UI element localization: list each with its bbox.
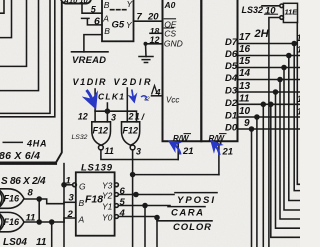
- data bus row D1: [238, 116, 301, 118]
- junction on F16b output: [50, 220, 54, 224]
- text 4HA with dash: [3, 139, 47, 149]
- wire G5 Y output to U-F17 OE pin 20: [134, 20, 163, 22]
- wire branch down from COLOR: [156, 221, 158, 247]
- wire R/W pin 21 stub of U-F19: [218, 145, 220, 175]
- wire bus corner 4: [0, 0, 39, 91]
- RAM chip U-F17 (left 6116) outline: [163, 0, 202, 141]
- overline of OE: [164, 18, 175, 20]
- wire D3 drop and corner: [276, 92, 301, 228]
- data bus row D3: [238, 91, 301, 93]
- wire D7 drop and corner: [294, 44, 300, 191]
- scan paper texture: [0, 0, 1, 1]
- data bus row D7: [238, 43, 298, 45]
- wire Y1 pin5 to CARA: [118, 206, 205, 207]
- junction D3: [274, 90, 278, 94]
- bubble Y3: [115, 183, 119, 187]
- wire branch to F12a pin 13 and F12b pin 1: [95, 103, 136, 122]
- junction pin1 node: [62, 183, 66, 187]
- annotation blue arrow 2 (V2DIR): [132, 90, 134, 99]
- wire CS pin 18 stub: [150, 32, 163, 34]
- decoder U-F18 LS139 outline: [76, 172, 115, 235]
- junction D1: [255, 115, 259, 119]
- junction at A-wire: [37, 220, 41, 224]
- junction YPOSI wire: [134, 193, 138, 197]
- wire D6 drop and corner: [289, 56, 300, 201]
- overline of CS: [164, 27, 173, 29]
- bubble on R/W pin of U-F19: [217, 141, 221, 145]
- wire into LS139 A pin 2: [64, 218, 76, 222]
- wire D0 drop to bottom: [251, 129, 253, 247]
- wire into LS139 B pin 3: [64, 201, 76, 203]
- label R/W of U-F17: [173, 134, 191, 143]
- junction D6: [287, 54, 291, 58]
- annotation blue arrow 1 (V1DIR): [87, 90, 94, 102]
- wire branch down from CARA: [144, 206, 146, 247]
- bubble Y0: [115, 215, 119, 219]
- wire CLK1 into F12a pin 12: [94, 89, 96, 122]
- junction D4: [278, 78, 282, 82]
- wire into gate 11E lower input, drops to bottom: [269, 18, 280, 247]
- mux U-G5 body: [102, 0, 134, 41]
- wire D2 drop to bottom: [262, 104, 264, 247]
- wire D2 second drop and corner: [271, 104, 300, 237]
- underline of 10: [265, 13, 278, 15]
- wire F12b output 3 to R/W of U-F19: [132, 150, 134, 247]
- annotation blue arrow 3 (R/W F17): [174, 144, 181, 155]
- data bus row D2: [238, 103, 301, 105]
- wire Vcc pin 24 stub: [152, 95, 163, 97]
- NOR gate F12a body (vertical, LS32): [92, 122, 111, 145]
- wire bus corner 6: [0, 0, 55, 117]
- junction GND wire: [144, 42, 148, 46]
- junction F12b output: [131, 173, 135, 177]
- wire V2DIR into F12b pin 2: [126, 88, 128, 122]
- wire pin5 to G5 A input: [82, 4, 102, 13]
- bubble Y1: [115, 204, 119, 208]
- label R/W of U-F19: [209, 134, 227, 143]
- wire D5 drop and corner: [284, 68, 300, 211]
- wire branch down to bottom: [51, 222, 53, 247]
- junction D0: [250, 127, 254, 131]
- NOR gate F12b body (vertical, LS32): [122, 122, 140, 145]
- wire bus corner 2: [0, 0, 12, 38]
- mux G5 section divider (dashed): [111, 9, 128, 11]
- junction CARA wire: [143, 204, 147, 208]
- wire Y2 pin6 to YPOSI: [118, 194, 174, 196]
- F12a output bubble: [99, 145, 104, 150]
- wire VREAD to G5 lower input: [84, 35, 102, 52]
- net YPOSI overline: [175, 192, 217, 194]
- junction on F16a output: [37, 197, 41, 201]
- wire LS32 pin10 into gate 11E top input: [262, 5, 280, 7]
- bubble Y2: [115, 193, 119, 197]
- connector label A10: [61, 0, 91, 4]
- data bus row D6: [238, 55, 301, 57]
- junction D2 b: [269, 102, 273, 106]
- wire bus corner 5: [0, 0, 50, 113]
- pin 24 zigzag mark: [152, 86, 158, 95]
- wire bus corner 3: [0, 0, 27, 66]
- junction pin 13: [105, 109, 109, 113]
- wire R/W pin 21 stub of U-F17: [177, 141, 179, 159]
- wire D1 drop to bottom: [256, 117, 258, 247]
- wire F16b output 11: [24, 221, 64, 223]
- module plate boundary 4HA: [0, 3, 62, 163]
- wire into LS139 G pin 1: [64, 184, 73, 186]
- annotation blue scribble: [141, 96, 148, 100]
- gate box 11E: [283, 3, 297, 22]
- junction D5: [282, 66, 286, 70]
- wire Y0 pin4 to COLOR: [118, 217, 212, 221]
- RAM chip U-F19 (right 6116) outline: [201, 0, 237, 141]
- wire D4 drop and corner: [280, 80, 300, 220]
- annotation blue arrow 4 (R/W F19): [215, 145, 220, 156]
- OR gate F16b body (XOR style, LS86): [0, 212, 24, 231]
- junction D2 a: [261, 102, 265, 106]
- wire from 11E down right edge: [297, 23, 300, 185]
- wire branch from 8-node down to A-wire: [38, 199, 40, 222]
- wire GND pin 12: [146, 44, 163, 57]
- F12b output bubble: [130, 145, 135, 150]
- junction D7: [292, 42, 296, 46]
- wire bus corner 1 (top left): [0, 0, 4, 13]
- wire F12a output 11 to R/W of U-F17: [101, 150, 178, 160]
- bubble 11E input B: [280, 16, 284, 20]
- junction COLOR wire: [155, 216, 159, 220]
- net VREAD overline: [72, 51, 109, 53]
- bubble on LS139 G input: [73, 183, 77, 187]
- bubble 11E input A: [280, 4, 284, 8]
- data bus row D5: [238, 67, 301, 69]
- data bus row D4: [238, 79, 301, 81]
- wire F16a output 8 with step to pin 3: [24, 199, 64, 204]
- ground symbol: [139, 57, 153, 63]
- wire from plate down to bottom edge: [63, 164, 65, 247]
- OR gate F16a body (XOR style, LS86): [0, 189, 24, 209]
- data bus row D0: [238, 128, 301, 130]
- wire pin6 to G5 B input with end tick: [82, 18, 102, 25]
